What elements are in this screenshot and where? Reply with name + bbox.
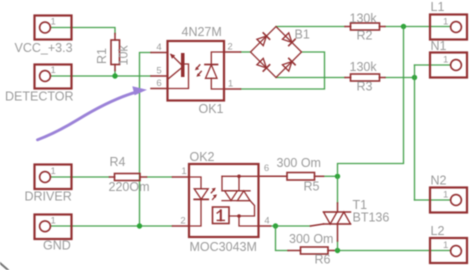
wire to N1 [415, 64, 452, 66]
detector triac triangles OK2 [225, 191, 238, 201]
LED lead from pin 1 [189, 177, 201, 189]
diamond outline [251, 27, 302, 78]
svg-text:R2: R2 [357, 29, 373, 43]
connector N1 [430, 53, 467, 78]
wire OK2 pin 4 to T1 gate [271, 225, 311, 227]
node junction R2/L1 [401, 24, 406, 29]
pin 2 stub [224, 51, 241, 53]
optocoupler OK1 4N27M [151, 41, 241, 101]
connector DETECTOR [35, 65, 72, 89]
digit 1 in zero-cross block [217, 210, 224, 220]
svg-text:2: 2 [180, 216, 185, 227]
LED leads [211, 52, 224, 65]
svg-text:1: 1 [181, 166, 186, 177]
svg-text:5: 5 [156, 66, 161, 77]
pin 4 stub OK2 [259, 225, 271, 227]
wire DETECTOR to OK1 pin 5 [50, 75, 151, 77]
svg-text:6: 6 [264, 163, 269, 174]
collector line [168, 68, 181, 79]
connector N2 [430, 188, 467, 213]
base connection to pin 6 [168, 64, 189, 89]
svg-text:6: 6 [156, 78, 161, 89]
resistor R2 [345, 23, 385, 30]
wire L1 net down to T1 MT2 junction [338, 27, 404, 174]
node junction R5/T1/L-net [335, 174, 340, 179]
resistor R3 [345, 74, 385, 81]
svg-text:4: 4 [156, 42, 161, 53]
wire GND to OK2 pin 2 [50, 225, 173, 227]
svg-text:130k: 130k [350, 60, 378, 74]
LED lead to pin 2 [189, 199, 201, 226]
photon arrow 2 OK1 [198, 71, 201, 74]
svg-text:1: 1 [443, 190, 448, 201]
svg-text:DRIVER: DRIVER [25, 190, 72, 204]
photon arrow 1 OK2 [211, 190, 214, 193]
svg-text:VCC_+3.3: VCC_+3.3 [15, 41, 73, 55]
svg-text:2: 2 [227, 42, 232, 53]
diode bridge B1 [251, 27, 302, 78]
LED triangle [206, 65, 218, 79]
node junction R1/DETECTOR [112, 73, 117, 78]
wire to N2 [415, 199, 452, 201]
svg-text:MOC3043M: MOC3043M [190, 240, 257, 254]
wire B1 bottom corner to R3 [276, 77, 345, 79]
wire R1 bottom to junction [114, 70, 116, 76]
emitter line with arrow [171, 55, 181, 65]
resistor R5 [287, 173, 324, 181]
pin 6 stub [151, 88, 168, 90]
svg-text:R5: R5 [304, 180, 320, 194]
svg-text:OK1: OK1 [199, 102, 224, 116]
svg-text:R6: R6 [315, 253, 331, 267]
svg-text:BT136: BT136 [353, 211, 390, 225]
svg-text:1: 1 [51, 216, 56, 227]
wire R3 to N net [385, 77, 415, 79]
svg-text:1: 1 [443, 240, 448, 251]
pin 5 stub [151, 75, 168, 77]
svg-text:4: 4 [264, 216, 269, 227]
wire R4 to OK2 pin 1 [147, 176, 173, 178]
gate lead [311, 224, 324, 226]
wire N net vertical N1 to N2 [414, 65, 416, 200]
pin 4 internal OK2 [239, 216, 259, 226]
gate path OK2 [229, 201, 255, 216]
svg-text:R3: R3 [357, 80, 373, 94]
svg-text:N1: N1 [431, 39, 447, 53]
triangles [324, 212, 338, 224]
MT2 lead [337, 203, 339, 212]
MT1 lead [337, 224, 339, 241]
wire R2 to L1 [385, 26, 451, 28]
LED cathode bar [205, 64, 218, 66]
phototransistor base bar [181, 53, 185, 77]
svg-text:4N27M: 4N27M [182, 25, 222, 39]
svg-text:OK2: OK2 [190, 150, 215, 164]
diode top-right [282, 33, 292, 43]
node junction R6/T1 MT1/L2 [335, 248, 340, 253]
pin 4 stub [151, 52, 168, 54]
wire B1 top corner to R2 [276, 26, 345, 28]
svg-text:DETECTOR: DETECTOR [5, 90, 74, 104]
svg-text:1: 1 [443, 55, 448, 66]
photon arrow 1 OK1 [197, 65, 200, 68]
wire R5 to T1 junction [324, 175, 338, 177]
svg-text:1: 1 [51, 65, 56, 76]
svg-text:300 Om: 300 Om [277, 156, 321, 170]
wire VCC_+3.3 to R1 top [50, 28, 115, 35]
connector VCC_+3.3 [35, 16, 72, 40]
pin 1 stub [224, 88, 241, 90]
zero-cross block square with 1 [213, 207, 230, 224]
svg-text:1: 1 [228, 79, 233, 90]
annotation purple arrow [38, 86, 148, 140]
connector GND [35, 215, 72, 240]
photon arrow 2 OK2 [213, 196, 216, 199]
svg-text:220Om: 220Om [109, 180, 150, 194]
svg-text:R1: R1 [95, 48, 109, 64]
svg-text:1: 1 [51, 17, 56, 28]
svg-text:300 Om: 300 Om [289, 232, 333, 246]
wire OK1 pin 2 to B1 left corner [241, 51, 251, 53]
pin 6 stub OK2 [259, 175, 288, 177]
svg-text:R4: R4 [110, 155, 126, 169]
detector triac rails OK2 [222, 190, 250, 192]
wire T1 MT2 lead green part [337, 176, 339, 203]
pin 2 stub OK2 [173, 225, 190, 227]
node junction OK2 pin4/R6 [273, 223, 278, 228]
svg-text:1: 1 [51, 166, 56, 177]
pin 1 stub OK2 [173, 176, 190, 178]
wire T1 MT1 green part [337, 241, 339, 251]
svg-text:GND: GND [43, 239, 71, 253]
LED triangle OK2 [194, 189, 208, 199]
wire OK1 pin 4 down to GND net [140, 53, 152, 227]
svg-text:1: 1 [443, 17, 448, 28]
svg-text:N2: N2 [431, 174, 447, 188]
transistor T1 triac BT136 [311, 203, 351, 241]
wire DRIVER to R4 [50, 176, 110, 178]
rails [324, 211, 351, 213]
svg-text:L1: L1 [431, 0, 445, 14]
svg-text:L2: L2 [431, 224, 445, 238]
node junction R3/N1/N2 [412, 75, 417, 80]
svg-text:10k: 10k [117, 45, 131, 66]
diode top-left [257, 36, 267, 46]
connector L2 [430, 238, 467, 263]
pin 6 internal line OK2 [222, 175, 259, 177]
LED cathode bar OK2 [194, 198, 208, 200]
diode bottom-right [282, 62, 292, 72]
wire junction down to R6 [276, 226, 289, 251]
resistor R4 [110, 174, 147, 181]
connector L1 [430, 15, 467, 40]
node junction GND vertical [137, 223, 142, 228]
svg-text:B1: B1 [295, 28, 310, 42]
wire OK1 pin 1 to B1 right corner [241, 52, 325, 89]
svg-text:130k: 130k [350, 12, 378, 26]
optocoupler OK2 MOC3043M [173, 164, 288, 237]
connector DRIVER [35, 165, 72, 190]
diode bottom-left [257, 58, 267, 68]
resistor R6 [288, 247, 334, 254]
wire R6 to L2 [334, 250, 451, 252]
resistor R1 [111, 34, 120, 71]
